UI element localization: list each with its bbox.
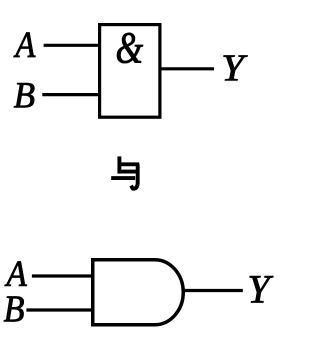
wire input A to U1 (44, 44, 100, 47)
wire input A to U2 (32, 274, 93, 277)
yu: middle horizontal bar (118, 170, 137, 174)
yu: right vertical with bottom J-hook (131, 164, 138, 188)
IEC AND-gate symbol U1 (rectangle body) (100, 25, 160, 118)
label & inside U1 (117, 33, 143, 63)
wire output Y of U2 (183, 289, 243, 292)
yu: upper horizontal bar (118, 162, 140, 166)
wire input B to U1 (42, 93, 99, 96)
wire input B to U2 (26, 308, 92, 311)
distinctive-shape AND gate U2 (D-shaped body) (93, 260, 184, 325)
node label B (top symbol input) (14, 83, 34, 107)
yu: left vertical stroke (117, 156, 121, 173)
node label A (bottom symbol input) (5, 262, 27, 286)
caption: Chinese character YU (AND), drawn as strokes (111, 156, 139, 188)
yu: long lower horizontal bar (111, 176, 135, 180)
node label Y (top symbol output) (224, 56, 248, 81)
node label Y (bottom symbol output) (250, 276, 273, 302)
node label B (bottom symbol input) (4, 297, 24, 322)
wire output Y of U1 (160, 67, 214, 70)
node label A (top symbol input) (14, 33, 36, 57)
